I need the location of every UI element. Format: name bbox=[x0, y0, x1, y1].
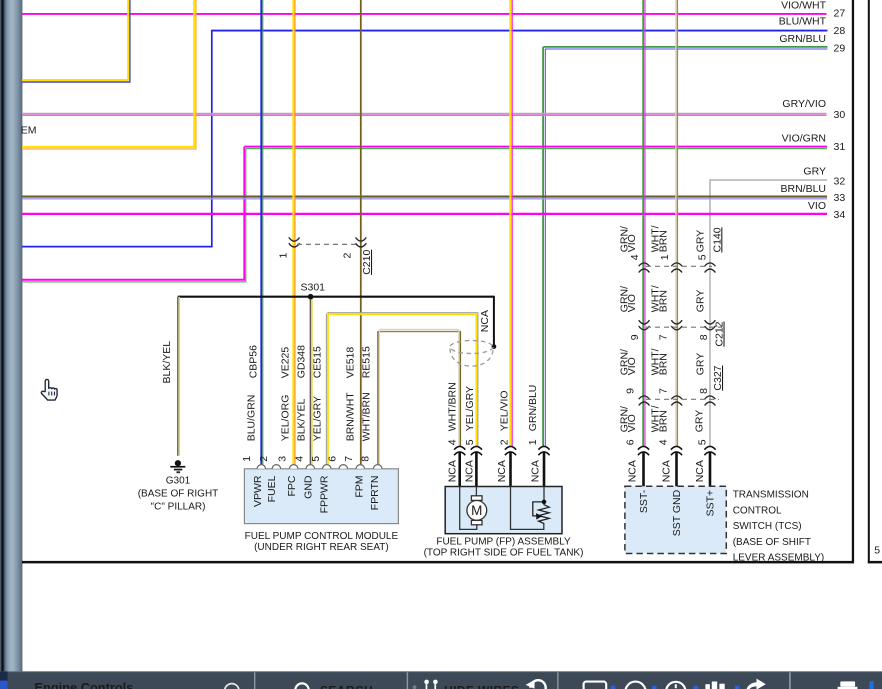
svg-text:34: 34 bbox=[834, 209, 846, 221]
wire WHT/BRN vertical to TCS pin 4 brown bbox=[676, 0, 678, 447]
svg-text:NCA: NCA bbox=[661, 460, 673, 482]
toolbar connector dots icon bbox=[424, 680, 437, 689]
toolbar info icon bbox=[225, 684, 239, 689]
page 1 bottom border bbox=[22, 561, 854, 564]
wire GRN/VIO vertical to TCS pin 6 green bbox=[642, 0, 644, 447]
FPCM module box bbox=[244, 469, 398, 524]
wire WHT/BRN vertical to FPCM pin 8 brown bbox=[377, 331, 379, 467]
svg-text:1: 1 bbox=[277, 253, 289, 259]
svg-text:7: 7 bbox=[343, 456, 355, 462]
wire WHT/BRN jog brown bbox=[378, 331, 461, 333]
fuel level sender variable resistor bbox=[533, 502, 549, 525]
svg-text:C210: C210 bbox=[361, 250, 373, 275]
toolbar bars icon bbox=[705, 684, 710, 689]
wire BLK/YEL S301 to G301 black bbox=[177, 297, 179, 456]
mouse cursor hand pointer bbox=[41, 379, 57, 400]
svg-text:7: 7 bbox=[657, 388, 669, 394]
wire BLU left pair horizontal bbox=[22, 81, 130, 83]
svg-text:C212: C212 bbox=[714, 321, 726, 346]
wire GRN/BLU row 29 green horizontal bbox=[543, 46, 827, 48]
svg-text:(BASE OF RIGHT: (BASE OF RIGHT bbox=[138, 489, 219, 500]
svg-text:5: 5 bbox=[697, 254, 709, 260]
svg-text:FPM: FPM bbox=[354, 476, 366, 498]
svg-text:32: 32 bbox=[834, 176, 846, 188]
toolbar blue tick 3 bbox=[694, 686, 699, 689]
svg-text:5: 5 bbox=[464, 439, 476, 445]
wire GRN/VIO vertical to TCS pin 6 violet bbox=[644, 0, 646, 447]
svg-text:4: 4 bbox=[657, 439, 669, 445]
wire NCA black to fuel tank unit bbox=[493, 296, 495, 347]
svg-text:YEL/ORG: YEL/ORG bbox=[279, 395, 291, 442]
svg-text:VIO/WHT: VIO/WHT bbox=[781, 0, 826, 11]
wire BLK/YEL S301 to G301 yellow bbox=[178, 297, 180, 456]
svg-text:BLK/YEL: BLK/YEL bbox=[296, 399, 308, 442]
svg-text:S301: S301 bbox=[301, 282, 326, 294]
wire YEL/VIO vertical to fuel pump pin 2 yellow bbox=[509, 0, 511, 447]
svg-text:NCA: NCA bbox=[463, 460, 475, 482]
svg-text:3: 3 bbox=[277, 456, 289, 462]
svg-text:FUEL: FUEL bbox=[266, 475, 278, 502]
wire BLU/WHT vertical bbox=[211, 30, 213, 247]
wire BRN/BLU row 33 blue bbox=[22, 198, 827, 200]
svg-text:4: 4 bbox=[293, 456, 305, 462]
connector C327 arcs bbox=[639, 396, 716, 406]
svg-text:7: 7 bbox=[657, 334, 669, 340]
svg-text:9: 9 bbox=[625, 388, 637, 394]
svg-text:SST+: SST+ bbox=[705, 490, 717, 517]
wire YEL/GRY jog gray bbox=[327, 312, 478, 314]
svg-text:28: 28 bbox=[834, 25, 846, 37]
fuel pump assembly box bbox=[445, 487, 562, 534]
svg-text:1: 1 bbox=[527, 439, 539, 445]
svg-text:SEARCH: SEARCH bbox=[320, 683, 373, 689]
svg-text:BLU/WHT: BLU/WHT bbox=[779, 16, 827, 28]
svg-text:SST GND: SST GND bbox=[671, 489, 683, 536]
svg-text:31: 31 bbox=[834, 141, 846, 153]
svg-text:Engine Controls: Engine Controls bbox=[35, 680, 134, 689]
svg-text:BRN: BRN bbox=[657, 230, 669, 252]
wire C212 dashed link bbox=[646, 326, 722, 328]
svg-text:BRN/BLU: BRN/BLU bbox=[780, 183, 826, 195]
wire BRN/BLU row 33 brown bbox=[22, 196, 827, 198]
svg-text:G301: G301 bbox=[166, 475, 191, 486]
page 2 left border bbox=[868, 0, 870, 563]
wire GRN/BLU row 29 blue horizontal bbox=[545, 48, 827, 50]
toolbar square icon bbox=[584, 682, 607, 689]
svg-text:WHT/BRN: WHT/BRN bbox=[361, 392, 373, 441]
wire black stub fuel pump pin 4 bbox=[458, 452, 461, 488]
svg-text:30: 30 bbox=[834, 109, 846, 121]
wire BLU/WHT row 28 horizontal bbox=[212, 30, 828, 32]
wire WHT/BRN vertical to TCS pin 4 white bbox=[675, 0, 677, 447]
wire C210 dashed link bbox=[297, 243, 358, 245]
svg-text:BRN: BRN bbox=[657, 353, 669, 375]
wire YEL/ORG orange horizontal left bbox=[22, 148, 196, 150]
svg-text:BLK/YEL: BLK/YEL bbox=[161, 341, 173, 384]
wire black stub TCS pin 6 bbox=[642, 452, 645, 487]
svg-text:BRN/WHT: BRN/WHT bbox=[345, 392, 357, 442]
svg-text:NCA: NCA bbox=[479, 310, 491, 332]
toolbar separator 4 bbox=[789, 672, 791, 689]
svg-text:LEVER ASSEMBLY): LEVER ASSEMBLY) bbox=[733, 553, 825, 564]
toolbar share icon bbox=[747, 679, 766, 689]
svg-text:VIO: VIO bbox=[626, 234, 638, 252]
connector C212 arcs bbox=[639, 320, 716, 330]
wire black stub TCS pin 4 bbox=[675, 452, 678, 487]
wire VIO/WHT row 27 bbox=[22, 13, 827, 15]
toolbar circle icon bbox=[625, 682, 645, 689]
toolbar blue bar right bbox=[869, 681, 873, 689]
wire YEL/ORG vertical to FPCM pin 3 yellow bbox=[292, 0, 294, 468]
wire YEL/ORG vertical to FPCM pin 3 orange bbox=[294, 0, 296, 468]
svg-text:GRY: GRY bbox=[694, 410, 706, 433]
svg-text:6: 6 bbox=[327, 456, 339, 462]
svg-text:GND: GND bbox=[303, 475, 315, 499]
ground G301 symbol bbox=[170, 460, 185, 473]
wire WHT/BRN vertical to FPCM pin 8 white bbox=[378, 330, 380, 468]
page 2 bottom border bbox=[868, 561, 882, 564]
wire black stub fuel pump pin 1 bbox=[543, 452, 546, 488]
svg-text:FUEL PUMP (FP) ASSEMBLY: FUEL PUMP (FP) ASSEMBLY bbox=[436, 536, 571, 547]
toolbar search icon bbox=[295, 683, 309, 689]
svg-text:4: 4 bbox=[629, 254, 641, 260]
svg-text:"C" PILLAR): "C" PILLAR) bbox=[151, 501, 206, 512]
wire splice S301 horizontal black bbox=[178, 296, 494, 298]
svg-text:WHT/BRN: WHT/BRN bbox=[447, 382, 459, 431]
wire VIO/GRN magenta left exit bbox=[22, 279, 245, 281]
toolbar separator 3 bbox=[557, 672, 559, 689]
svg-text:4: 4 bbox=[447, 439, 459, 445]
wire BLU left pair vertical bbox=[129, 0, 131, 83]
svg-text:FPRTN: FPRTN bbox=[369, 476, 381, 511]
toolbar separator 1 bbox=[254, 672, 256, 689]
wire C327 dashed link bbox=[646, 398, 719, 400]
toolbar left corner blue block bbox=[0, 681, 8, 689]
wire WHT/BRN vertical to fuel pump pin 4 brown bbox=[459, 331, 461, 447]
svg-text:RE515: RE515 bbox=[361, 346, 373, 378]
svg-text:VE518: VE518 bbox=[345, 347, 357, 379]
svg-text:NCA: NCA bbox=[694, 460, 706, 482]
connector C210 pin 1 arcs on YEL/ORG wire bbox=[289, 237, 300, 247]
toolbar blue tick 1 bbox=[611, 686, 616, 689]
svg-text:8: 8 bbox=[360, 456, 372, 462]
wire WHT/BRN jog white bbox=[379, 329, 459, 331]
wire GRN/BLU blue vertical to fuel pump pin 1 bbox=[544, 49, 546, 447]
wire BLK/YEL S301 to FPCM pin 4 yellow bbox=[311, 297, 313, 468]
wire WHT/BRN vertical to fuel pump pin 4 white bbox=[458, 330, 460, 448]
toolbar clock icon bbox=[666, 682, 685, 689]
wire black stub TCS pin 5 bbox=[709, 452, 712, 487]
svg-text:CBP56: CBP56 bbox=[247, 345, 259, 378]
wire VIO/GRN magenta vertical bbox=[243, 147, 245, 280]
svg-text:GRN/BLU: GRN/BLU bbox=[779, 33, 826, 45]
connector C140 arcs wire 1 bbox=[639, 263, 716, 273]
FPCM pin bumps bbox=[257, 465, 382, 469]
svg-text:C327: C327 bbox=[712, 365, 724, 390]
svg-text:VIO/GRN: VIO/GRN bbox=[782, 133, 826, 145]
svg-text:VPWR: VPWR bbox=[252, 475, 264, 507]
toolbar separator 2 bbox=[406, 672, 408, 689]
svg-text:GRY: GRY bbox=[695, 230, 707, 253]
svg-text:5: 5 bbox=[697, 439, 709, 445]
wire GRY/VIO row 30 violet bbox=[22, 114, 827, 116]
connector chevrons at TCS pins bbox=[638, 446, 716, 455]
left page spine bar bbox=[0, 0, 22, 671]
connector chevrons at fuel pump pins bbox=[454, 446, 549, 455]
svg-text:NCA: NCA bbox=[446, 460, 458, 482]
wire inside fuel pump to motor bbox=[460, 487, 544, 530]
svg-text:YEL/GRY: YEL/GRY bbox=[312, 396, 324, 441]
wire VIO row 34 bbox=[22, 213, 827, 215]
wire VIO/GRN row 31 magenta horizontal bbox=[244, 146, 827, 148]
bottom toolbar bbox=[0, 671, 882, 689]
wire black stub fuel pump pin 2 bbox=[509, 452, 512, 488]
svg-text:GRY: GRY bbox=[803, 166, 826, 178]
svg-text:NCA: NCA bbox=[496, 460, 508, 482]
svg-text:6: 6 bbox=[625, 439, 637, 445]
svg-text:YEL/VIO: YEL/VIO bbox=[499, 390, 511, 431]
svg-text:BLU/GRN: BLU/GRN bbox=[245, 395, 257, 442]
svg-text:VIO: VIO bbox=[808, 200, 826, 212]
svg-text:M: M bbox=[471, 503, 482, 518]
svg-text:(BASE OF SHIFT: (BASE OF SHIFT bbox=[733, 537, 811, 548]
wire BLU/WHT left exit bbox=[22, 246, 213, 248]
page 1 right border bbox=[852, 0, 854, 563]
node S301 splice dot bbox=[308, 294, 314, 300]
svg-text:FUEL PUMP CONTROL MODULE: FUEL PUMP CONTROL MODULE bbox=[245, 531, 399, 542]
wire YEL/GRY vertical to FPCM pin 5 gray bbox=[325, 314, 327, 468]
svg-text:1: 1 bbox=[241, 456, 253, 462]
wire YEL left pair vertical bbox=[127, 0, 129, 81]
svg-text:NCA: NCA bbox=[626, 460, 638, 482]
svg-text:(UNDER RIGHT REAR SEAT): (UNDER RIGHT REAR SEAT) bbox=[254, 542, 389, 553]
svg-text:EM: EM bbox=[21, 125, 37, 137]
wire GRY row 32 horizontal bbox=[710, 179, 827, 181]
svg-text:GRN/BLU: GRN/BLU bbox=[527, 385, 539, 432]
wire VIO/GRN green left exit bbox=[22, 281, 246, 283]
svg-text:9: 9 bbox=[629, 334, 641, 340]
svg-text:2: 2 bbox=[342, 253, 354, 259]
svg-text:GRY: GRY bbox=[695, 353, 707, 376]
wire YEL/ORG orange vertical upper bbox=[195, 0, 197, 150]
fuel pump motor M1 bbox=[467, 496, 487, 525]
wire YEL/GRY jog yellow bbox=[328, 313, 477, 315]
svg-text:1: 1 bbox=[659, 254, 671, 260]
svg-text:2: 2 bbox=[258, 456, 270, 462]
svg-text:29: 29 bbox=[834, 43, 846, 55]
svg-text:VE225: VE225 bbox=[279, 347, 291, 379]
svg-text:FPPWR: FPPWR bbox=[319, 475, 331, 513]
wire C140 dashed link bbox=[646, 265, 712, 267]
svg-text:C140: C140 bbox=[711, 227, 723, 252]
svg-text:(TOP RIGHT SIDE OF FUEL TANK): (TOP RIGHT SIDE OF FUEL TANK) bbox=[424, 548, 584, 559]
svg-text:SST-: SST- bbox=[638, 489, 650, 513]
wire BRN/WHT vertical to FPCM pin 7 bbox=[360, 0, 362, 468]
svg-text:5: 5 bbox=[874, 544, 880, 556]
svg-text:CONTROL: CONTROL bbox=[733, 505, 782, 516]
svg-text:2: 2 bbox=[499, 439, 511, 445]
wire GRY/VIO row 30 gray bbox=[22, 112, 827, 114]
svg-text:27: 27 bbox=[834, 8, 846, 20]
wire black stub fuel pump pin 5 bbox=[475, 452, 478, 488]
wire YEL left pair horizontal bbox=[22, 79, 128, 81]
svg-text:8: 8 bbox=[698, 334, 710, 340]
svg-text:GD348: GD348 bbox=[296, 345, 308, 378]
wire YEL/ORG yellow horizontal left bbox=[22, 146, 194, 148]
svg-text:GRY/VIO: GRY/VIO bbox=[782, 98, 826, 110]
svg-text:TRANSMISSION: TRANSMISSION bbox=[733, 490, 809, 501]
svg-text:NCA: NCA bbox=[530, 460, 542, 482]
TCS box dashed bbox=[625, 486, 726, 553]
svg-text:VIO: VIO bbox=[626, 414, 638, 432]
svg-text:CE515: CE515 bbox=[312, 346, 324, 378]
svg-text:33: 33 bbox=[834, 192, 846, 204]
svg-text:FPC: FPC bbox=[286, 475, 298, 496]
connector C210 pin 2 arcs on BRN/WHT wire bbox=[356, 237, 367, 247]
wire YEL/GRY vertical to fuel pump pin 5 yellow bbox=[475, 314, 477, 447]
svg-text:5: 5 bbox=[310, 456, 322, 462]
svg-text:8: 8 bbox=[698, 388, 710, 394]
wire YEL/GRY vertical to FPCM pin 5 yellow bbox=[327, 314, 329, 467]
wire YEL/GRY vertical to fuel pump pin 5 gray bbox=[477, 313, 479, 447]
toolbar blue tick 2 bbox=[652, 686, 657, 689]
toolbar left corner navy block bbox=[0, 671, 8, 689]
wire BLU/GRN vertical green edge bbox=[262, 0, 264, 468]
wire YEL/ORG yellow vertical upper bbox=[193, 0, 195, 148]
svg-text:YEL/GRY: YEL/GRY bbox=[464, 386, 476, 431]
svg-text:SWITCH (TCS): SWITCH (TCS) bbox=[733, 521, 802, 532]
wire GRN/BLU green vertical to fuel pump pin 1 bbox=[542, 47, 544, 447]
toolbar undo icon bbox=[531, 680, 546, 689]
fuel tank unit dashed canister bbox=[450, 341, 493, 367]
toolbar printer icon bbox=[840, 681, 855, 686]
node NCA fuel tank dot bbox=[492, 344, 497, 349]
wire VIO/GRN green vertical bbox=[245, 149, 247, 282]
wire BLK/YEL S301 to FPCM pin 4 black bbox=[309, 297, 311, 468]
wire YEL/VIO vertical to fuel pump pin 2 violet bbox=[511, 0, 513, 447]
toolbar blue tick 4 bbox=[735, 686, 740, 689]
wire BLU/GRN vertical to FPCM pin 1 blue bbox=[260, 0, 262, 468]
svg-text:GRY: GRY bbox=[695, 290, 707, 313]
svg-text:BRN: BRN bbox=[657, 410, 669, 432]
wire GRY vertical to TCS pin 5 bbox=[709, 179, 711, 447]
svg-text:HIDE WIRES: HIDE WIRES bbox=[444, 683, 519, 689]
wire VIO/GRN row 31 green horizontal bbox=[246, 148, 827, 150]
svg-text:VIO: VIO bbox=[626, 357, 638, 375]
svg-text:VIO: VIO bbox=[626, 294, 638, 312]
svg-text:BRN: BRN bbox=[657, 290, 669, 312]
